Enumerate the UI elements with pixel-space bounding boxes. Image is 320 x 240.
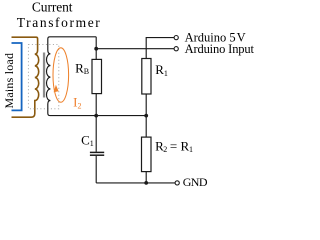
terminal Arduino 5V [174,36,178,40]
transformer primary winding L1 (brown) [12,37,39,117]
capacitor C1 [90,151,104,153]
svg-text:Arduino 5 V: Arduino 5 V [185,31,246,45]
wire 5V rail [146,38,174,59]
resistor R2 [142,137,152,172]
wire RB top lead [95,49,97,60]
wire R1 bottom lead to mid node [145,94,147,137]
transformer secondary winding L2 [47,37,97,116]
transformer core boundary (dotted box) [28,45,58,109]
wire mid rail [96,115,146,117]
transformer core [43,53,45,98]
svg-text:Mains load: Mains load [2,53,16,109]
secondary current loop arrow [53,48,69,102]
wire C1 bottom lead [95,156,97,183]
wire input rail [96,48,174,50]
node: mid-right junction [144,114,148,118]
wire R2 bottom lead [145,172,147,183]
node: mid-left junction [94,114,98,118]
wire RB bottom lead [95,94,97,116]
node: ground junction [144,181,148,185]
svg-text:GND: GND [183,175,208,189]
wire ground rail [96,182,175,184]
terminal GND [175,181,179,185]
svg-text:RB: RB [75,60,89,76]
terminal Arduino Input [174,47,178,51]
svg-text:Current: Current [32,0,73,15]
resistor RB [92,59,102,93]
svg-text:Transformer: Transformer [17,15,102,30]
mains load bracket [12,43,22,110]
node: input junction [94,47,98,51]
wire C1 top lead [95,116,97,152]
title label "Current Transformer" [17,0,102,30]
svg-text:R2=R1: R2=R1 [155,138,193,154]
resistor R1 [142,59,151,95]
svg-text:R1: R1 [155,62,168,78]
svg-text:C1: C1 [81,132,94,148]
svg-text:I2: I2 [73,95,81,111]
wire secondary top to input rail [95,37,97,49]
